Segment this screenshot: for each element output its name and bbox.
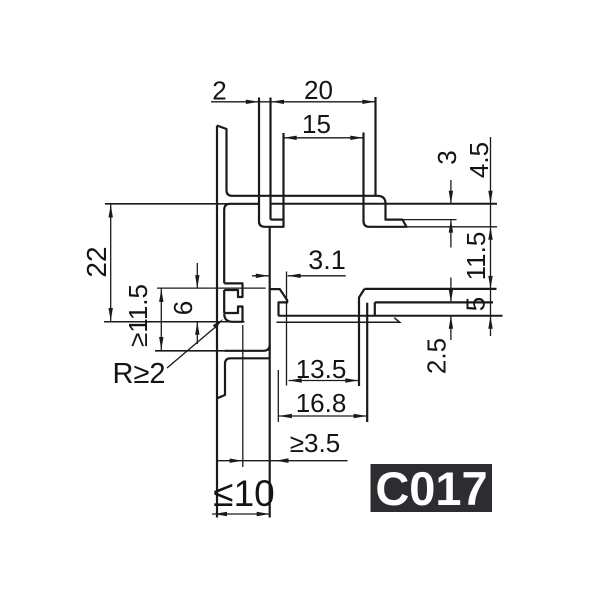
dim line >=3.5 (217, 460, 347, 462)
dim line 2.5 lower tail (450, 316, 452, 340)
arrow >=11.5 up (159, 289, 163, 302)
svg-text:≥11.5: ≥11.5 (123, 284, 153, 347)
arrow 15 right (350, 136, 363, 140)
svg-text:3.1: 3.1 (308, 245, 346, 275)
lower-right wall notch right face (374, 302, 376, 315)
dim line 22 (110, 204, 112, 322)
bottom-left floor top (224, 345, 270, 351)
part number box C017 (371, 464, 493, 512)
svg-text:≤10: ≤10 (213, 473, 274, 514)
svg-text:3: 3 (432, 150, 462, 164)
lower-right rail bevel + left face (359, 289, 365, 386)
dim line 6 upper tail (196, 263, 198, 288)
svg-text:R≥2: R≥2 (113, 358, 166, 390)
extension line foot step right (403, 219, 457, 221)
dim line 2.5 upper tail (450, 278, 452, 303)
left flange + upper web + right foot + upper-right wall inner face (217, 126, 407, 227)
arrow 2 right-pointing at central wall left (246, 100, 259, 104)
arrow >=3.5 right outside (276, 458, 289, 463)
C-clip top bar (224, 283, 242, 297)
arrow 6 up-pointing lower (195, 322, 199, 335)
extension line web bottom left (105, 203, 259, 205)
svg-text:C017: C017 (375, 462, 487, 515)
arrow 2.5 down (449, 289, 453, 302)
dim line 15 (284, 137, 364, 139)
lower-right rail bottom (375, 301, 493, 303)
central wall left face + foot bottom + foot right face (259, 98, 284, 227)
arrow 2.5 up (449, 316, 453, 329)
extension line tooth top left (157, 287, 266, 289)
arrow 20 left-pointing at central wall right (271, 100, 284, 104)
arrow 22 down (109, 308, 113, 321)
svg-text:4.5: 4.5 (464, 142, 494, 178)
arrow >=3.5 left outside (230, 459, 243, 463)
lower-left wall inner face in clip mouth (223, 290, 225, 313)
arrow <=10 left (214, 512, 227, 516)
dim line 4.5/11.5/5 column (490, 137, 492, 336)
central wall right face (269, 98, 271, 220)
dim line 6 lower tail (196, 322, 198, 344)
arrow 3.1 left (256, 274, 269, 278)
svg-text:2: 2 (212, 76, 226, 106)
dim line 3.1 left tail (252, 275, 269, 277)
lower-right wall inner face (366, 303, 368, 422)
arrow 13.5 left (289, 378, 302, 382)
dim line 3 lower tail (450, 220, 452, 248)
middle wall right tooth (270, 289, 288, 316)
arrow 4.5 down (488, 191, 492, 204)
arrow 5 up (488, 316, 492, 329)
svg-text:11.5: 11.5 (461, 232, 491, 281)
bottom-left floor bottom (231, 357, 270, 359)
svg-text:20: 20 (304, 75, 333, 105)
middle wall lower portion (269, 227, 271, 518)
lower-left wall inner face below floor with slant tip (217, 358, 231, 398)
lower channel floor top line (278, 315, 502, 317)
arrow 13.5 right (345, 378, 358, 382)
lower-left wall inner face upper part (224, 204, 259, 284)
lower-right rail top (365, 288, 497, 290)
dim line <=10 (212, 513, 270, 515)
dim line 13.5 (289, 380, 359, 382)
svg-text:2.5: 2.5 (422, 338, 452, 374)
extension line foot bottom right (407, 226, 498, 228)
svg-text:13.5: 13.5 (296, 354, 347, 384)
arrow 3.1 right (288, 274, 301, 278)
dim line >=11.5 (160, 288, 162, 351)
arrow 3 up (449, 220, 453, 233)
svg-text:5: 5 (461, 297, 491, 311)
arrow 16.8 left (279, 414, 292, 418)
arrow 11.5 down (488, 276, 492, 289)
extension line 3.1/13.5 vertical (286, 272, 288, 386)
arrow 3 down (449, 191, 453, 204)
C-clip bottom bar with R fillet (224, 307, 242, 322)
arrow 15 left (284, 136, 297, 140)
lower channel floor bottom line (277, 318, 400, 323)
extension line 22 bottom / clip bottom (104, 321, 245, 323)
extension line 16.8 left vertical (277, 370, 279, 422)
leader line R>=2 (167, 327, 216, 369)
central wall foot top edge (271, 219, 284, 221)
arrow 6 down-pointing upper (195, 275, 199, 288)
upper-right wall outer face (374, 97, 376, 196)
dim line 16.8 (279, 415, 367, 417)
svg-text:15: 15 (302, 109, 331, 139)
arrow leader R>=2 (213, 319, 223, 329)
arrow >=11.5 down (159, 337, 163, 350)
dim line 3.1 right tail (288, 275, 346, 277)
svg-text:22: 22 (81, 246, 112, 277)
arrow 11.5 up (488, 227, 492, 240)
svg-text:≥3.5: ≥3.5 (290, 428, 340, 458)
arrow 22 up (109, 205, 113, 218)
arrow 16.8 right (354, 414, 367, 418)
extension line floor top left (155, 350, 224, 352)
dim line 3 upper tail (450, 180, 452, 204)
left wall outer face (216, 126, 218, 518)
extension line slot lip vertical (242, 325, 244, 467)
svg-text:16.8: 16.8 (296, 388, 347, 418)
arrow 20 right-pointing at right wall (362, 100, 375, 104)
web bottom right segment (271, 203, 498, 205)
dim line 2/20 (211, 101, 375, 103)
svg-text:6: 6 (168, 301, 198, 315)
arrow <=10 right (257, 512, 270, 516)
